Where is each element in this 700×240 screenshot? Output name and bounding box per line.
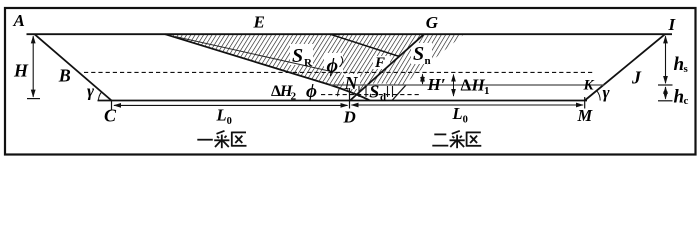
svg-text:A: A (13, 11, 25, 30)
white gap for label S_R (290, 44, 313, 65)
H bottom tick (27, 98, 40, 100)
svg-text:h: h (674, 54, 685, 75)
svg-text:γ: γ (87, 82, 95, 101)
L0 dimension area 2 (352, 104, 584, 106)
dashed line 2 (321, 94, 422, 96)
svg-text:M: M (577, 106, 594, 125)
gamma arc at M (597, 91, 601, 101)
tick D (349, 88, 351, 109)
hc dimension arrow (665, 87, 667, 99)
seam baseline C-M (98, 100, 588, 102)
S_d ticks (358, 86, 360, 97)
svg-text:n: n (425, 55, 431, 67)
一采区 (first mining area) (197, 131, 246, 148)
svg-text:0: 0 (463, 114, 468, 125)
svg-text:B: B (58, 65, 71, 85)
border frame (5, 8, 696, 155)
hs/hc tick (658, 84, 673, 86)
yi (197, 139, 213, 141)
dashed critical line 1 (84, 71, 593, 73)
dH1 arrow (453, 75, 455, 97)
svg-text:d: d (380, 91, 386, 103)
phi upper arc (340, 56, 343, 67)
diagonal A-C (35, 34, 112, 100)
svg-text:E: E (253, 12, 265, 31)
diagonal M-I (585, 34, 665, 100)
svg-text:J: J (631, 68, 642, 88)
short parallel line near S_d (392, 85, 406, 101)
svg-text:ϕ: ϕ (306, 81, 317, 102)
white gap for label F (373, 56, 390, 69)
svg-text:F: F (374, 55, 385, 71)
svg-text:K: K (583, 77, 595, 93)
tick M (584, 97, 586, 109)
H' arrow (422, 74, 424, 84)
svg-text:0: 0 (227, 116, 232, 127)
er (434, 133, 446, 135)
svg-text:S: S (292, 45, 303, 67)
cai (214, 131, 229, 148)
svg-text:c: c (684, 95, 689, 107)
qu (232, 132, 247, 147)
svg-text:I: I (668, 15, 677, 34)
strip S_R hatched region (165, 34, 399, 94)
svg-text:S: S (369, 82, 379, 102)
二采区 (second mining area) (432, 131, 481, 148)
svg-text:D: D (343, 107, 356, 126)
white gap for label S_d (367, 84, 387, 100)
svg-text:ϕ: ϕ (327, 54, 339, 76)
svg-text:s: s (684, 63, 689, 75)
surface line A-I (27, 33, 673, 35)
L0 dimension area 1 (114, 104, 348, 106)
gamma arc at C (98, 92, 101, 101)
strip1 lower boundary curve (165, 34, 370, 100)
white gap for upper phi (324, 53, 343, 72)
white gap for label N (344, 74, 360, 89)
tick C (111, 101, 113, 110)
svg-text:L: L (216, 106, 227, 125)
svg-text:C: C (104, 106, 117, 126)
strip1 internal thin dashed line (175, 37, 338, 74)
strip1 upper boundary (330, 34, 399, 56)
H dimension arrow (32, 36, 34, 97)
svg-text:G: G (426, 13, 439, 32)
strip S_n hatched region (367, 34, 464, 85)
svg-text:2: 2 (291, 91, 297, 103)
svg-text:1: 1 (484, 85, 490, 97)
line D-G' (steep boundary to D) (350, 34, 424, 100)
middle triangle hatched region (330, 34, 424, 56)
svg-text:H′: H′ (427, 75, 446, 94)
white gap for label S_n (411, 43, 432, 64)
svg-text:R: R (304, 57, 313, 69)
subsided surface solid line (330, 84, 605, 86)
svg-text:L: L (452, 104, 463, 123)
svg-text:h: h (674, 86, 685, 107)
hs dimension arrow (665, 36, 667, 83)
svg-text:γ: γ (603, 83, 611, 102)
svg-text:H: H (13, 60, 29, 80)
svg-text:Δ: Δ (461, 76, 472, 95)
svg-text:N: N (344, 73, 359, 93)
svg-text:S: S (413, 43, 424, 65)
hc bottom tick (658, 100, 673, 102)
phi lower arc (338, 89, 340, 96)
